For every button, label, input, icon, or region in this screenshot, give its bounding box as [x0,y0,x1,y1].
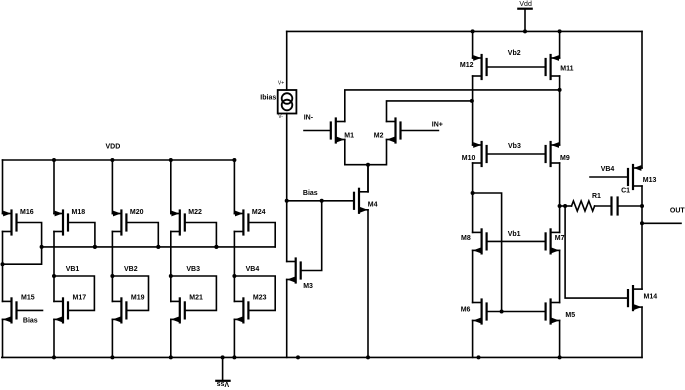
svg-text:M14: M14 [644,294,658,301]
svg-text:M9: M9 [560,155,570,162]
svg-text:M3: M3 [303,283,313,290]
svg-text:M15: M15 [21,294,35,301]
svg-text:Bias: Bias [303,190,318,197]
svg-text:M2: M2 [374,133,384,140]
svg-text:IN+: IN+ [432,121,443,128]
svg-text:V-: V- [278,114,283,120]
svg-text:Vdd: Vdd [519,1,532,8]
svg-text:M5: M5 [565,312,575,319]
svg-text:VB3: VB3 [186,266,200,273]
svg-text:M16: M16 [20,209,34,216]
svg-text:M24: M24 [252,209,266,216]
svg-text:M20: M20 [130,209,144,216]
svg-text:IN-: IN- [304,115,314,122]
svg-text:VB4: VB4 [601,166,615,173]
svg-text:M11: M11 [560,65,573,72]
svg-text:M1: M1 [344,133,354,140]
svg-text:OUT: OUT [670,207,685,214]
svg-text:M18: M18 [72,209,86,216]
svg-text:M17: M17 [73,294,87,301]
svg-text:M6: M6 [461,306,471,313]
svg-text:VDD: VDD [106,143,121,150]
svg-text:Vb3: Vb3 [508,143,521,150]
svg-text:M12: M12 [460,62,474,69]
svg-text:M7: M7 [555,235,565,242]
svg-text:Vb2: Vb2 [508,50,521,57]
svg-text:VB4: VB4 [246,266,260,273]
svg-text:M22: M22 [188,209,202,216]
svg-text:Vss: Vss [217,380,230,387]
svg-text:VB2: VB2 [124,266,138,273]
svg-text:C1: C1 [621,187,630,194]
svg-text:M4: M4 [368,202,378,209]
svg-text:M19: M19 [131,294,145,301]
svg-text:R1: R1 [592,193,601,200]
svg-text:Ibias: Ibias [260,95,276,102]
svg-text:M23: M23 [253,294,267,301]
svg-text:M21: M21 [189,294,203,301]
svg-text:Vb1: Vb1 [508,231,521,238]
svg-text:VB1: VB1 [66,266,80,273]
svg-text:M8: M8 [461,235,471,242]
svg-text:M10: M10 [462,155,476,162]
svg-text:V+: V+ [278,81,284,87]
svg-text:M13: M13 [643,177,657,184]
svg-text:Bias: Bias [23,317,38,324]
